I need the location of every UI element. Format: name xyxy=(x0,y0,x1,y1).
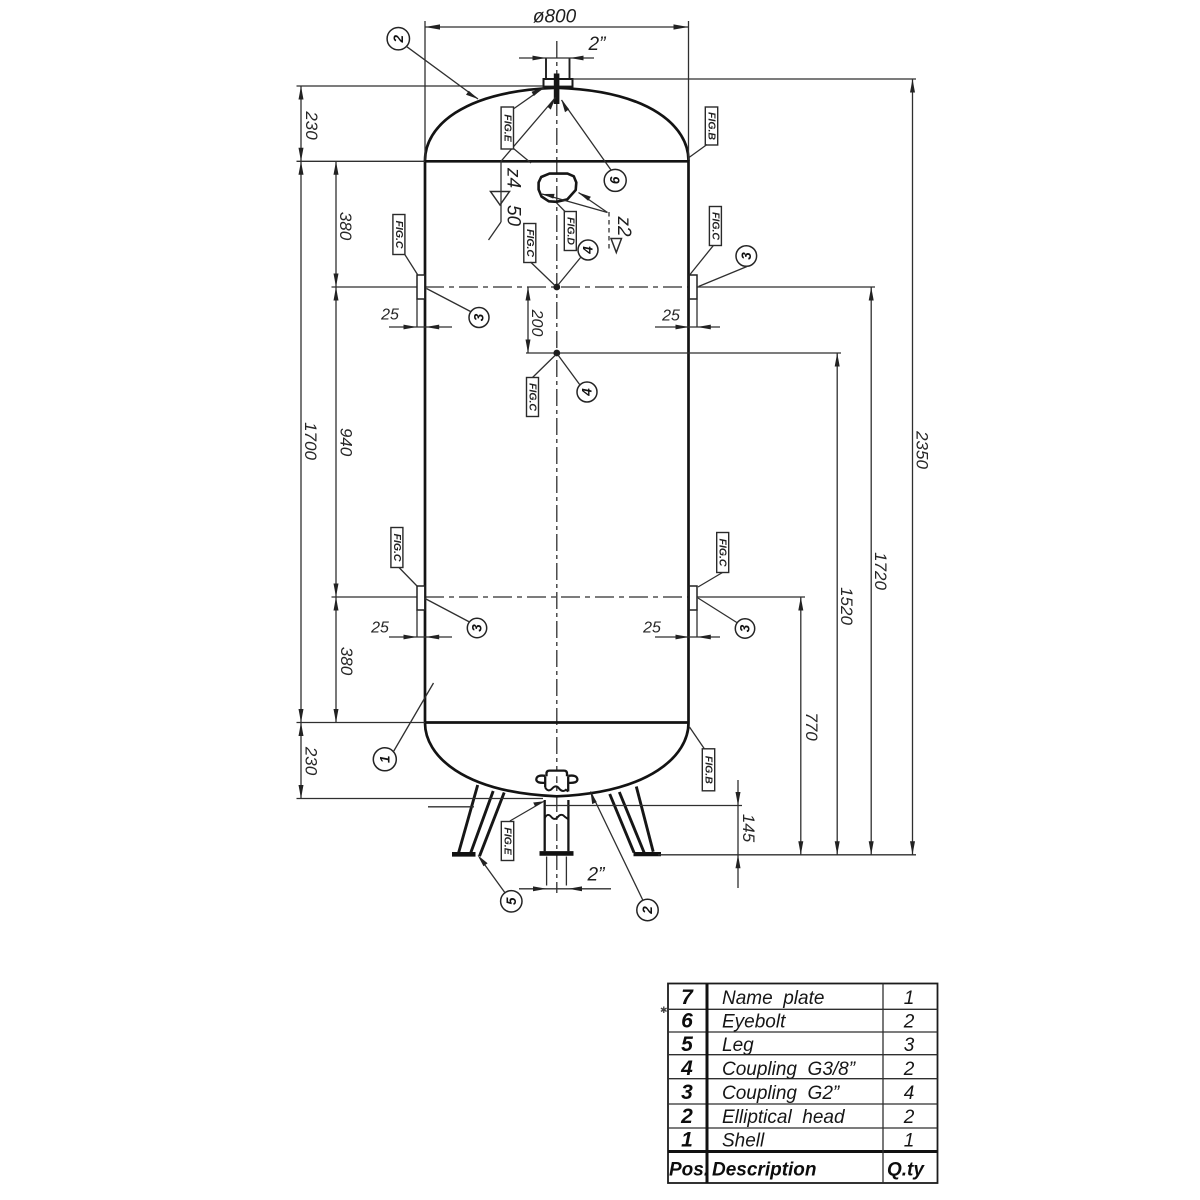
coupling G2 upper-left xyxy=(417,275,425,299)
coupling G2 lower-right xyxy=(689,586,697,610)
balloon 3 upper-left xyxy=(469,308,489,328)
weld symbol z2 xyxy=(579,193,608,213)
svg-text:5: 5 xyxy=(681,1033,693,1056)
svg-text:Pos.: Pos. xyxy=(669,1160,709,1181)
svg-text:3: 3 xyxy=(904,1035,915,1056)
left dim chain 230/1700/230 xyxy=(300,86,302,799)
dim 1520 xyxy=(836,353,838,855)
top elliptical head xyxy=(425,88,689,161)
svg-text:200: 200 xyxy=(528,309,545,337)
top nozzle pipe xyxy=(545,58,547,79)
label FIG.E top xyxy=(501,107,513,149)
svg-text:Coupling G3/8”: Coupling G3/8” xyxy=(722,1059,857,1080)
upper coupling centerline xyxy=(332,286,426,288)
balloon 1 xyxy=(373,748,396,771)
dim 770 xyxy=(800,597,802,855)
svg-text:940: 940 xyxy=(337,428,356,457)
svg-text:FIG.E: FIG.E xyxy=(501,114,513,142)
ext lines below bottom flange xyxy=(546,857,548,886)
dim 2 inch bottom xyxy=(519,888,611,890)
svg-text:4: 4 xyxy=(680,1057,693,1080)
svg-text:50: 50 xyxy=(503,205,524,227)
dim Ø800 xyxy=(424,21,426,160)
svg-text:1: 1 xyxy=(377,756,392,764)
coupling G2 upper-right xyxy=(689,275,697,299)
eyebolt plan view xyxy=(539,174,577,202)
svg-text:Eyebolt: Eyebolt xyxy=(722,1012,786,1033)
balloon 3 upper-right xyxy=(736,246,757,267)
coupling G3/8 node upper xyxy=(553,284,560,291)
parts table frame xyxy=(668,984,938,1184)
shell right wall xyxy=(687,160,690,723)
weld symbol z4-50 flag xyxy=(500,161,502,222)
svg-text:3: 3 xyxy=(470,624,485,632)
label FIG.C upper-left xyxy=(393,215,405,255)
dim 2 inch top xyxy=(519,57,594,59)
bottom coupling break squiggle xyxy=(545,786,568,791)
left leg xyxy=(458,785,477,854)
svg-text:2: 2 xyxy=(640,906,655,915)
balloon 2 top xyxy=(387,28,409,50)
svg-text:Q.ty: Q.ty xyxy=(887,1160,925,1181)
balloon 6 xyxy=(604,169,626,191)
svg-text:25: 25 xyxy=(661,308,680,325)
svg-text:380: 380 xyxy=(336,212,355,241)
svg-text:1: 1 xyxy=(904,1131,915,1152)
svg-text:6: 6 xyxy=(681,1010,693,1033)
top tangent weld line xyxy=(425,160,689,163)
svg-text:Name plate: Name plate xyxy=(722,988,824,1009)
svg-text:770: 770 xyxy=(802,712,821,741)
svg-text:z4: z4 xyxy=(503,167,524,188)
svg-text:3: 3 xyxy=(739,252,754,260)
coupling G3/8 node lower xyxy=(553,350,560,357)
svg-text:FIG.C: FIG.C xyxy=(391,534,403,562)
label FIG.C lower-left xyxy=(391,528,403,568)
svg-text:Coupling G2”: Coupling G2” xyxy=(722,1083,841,1104)
top nozzle stud (dark) xyxy=(554,74,560,105)
svg-text:1700: 1700 xyxy=(301,422,320,460)
svg-text:FIG.B: FIG.B xyxy=(703,756,715,784)
svg-text:380: 380 xyxy=(337,647,356,676)
balloon 2 bottom xyxy=(637,899,658,920)
svg-text:2: 2 xyxy=(680,1105,693,1128)
left leg foot xyxy=(452,852,476,857)
label FIG.D xyxy=(564,212,576,251)
svg-text:4: 4 xyxy=(580,388,595,397)
label FIG.B bottom xyxy=(702,749,714,791)
label FIG.C lower-mid xyxy=(527,378,539,417)
svg-text:3: 3 xyxy=(472,313,487,321)
right extension lines xyxy=(573,78,917,80)
shell left wall xyxy=(424,160,427,723)
svg-text:Description: Description xyxy=(712,1160,817,1181)
svg-text:Elliptical head: Elliptical head xyxy=(722,1107,846,1128)
bottom pipe xyxy=(544,800,546,851)
svg-text:230: 230 xyxy=(302,110,321,140)
left chain extension lines xyxy=(297,85,544,87)
svg-text:Leg: Leg xyxy=(722,1035,754,1056)
balloon 4 upper xyxy=(578,240,598,260)
svg-text:230: 230 xyxy=(302,746,321,776)
label FIG.E bottom xyxy=(501,822,513,861)
svg-text:1720: 1720 xyxy=(871,552,890,590)
right leg foot xyxy=(634,852,662,856)
svg-text:5: 5 xyxy=(504,897,519,905)
dim 2350 xyxy=(912,79,914,855)
label FIG.C lower-right xyxy=(717,533,729,573)
coupling G2 lower-left xyxy=(417,586,425,610)
svg-text:2”: 2” xyxy=(588,34,608,55)
bottom coupling body xyxy=(544,776,546,787)
svg-text:Shell: Shell xyxy=(722,1131,765,1152)
top nozzle flange xyxy=(544,79,573,87)
bottom coupling right lobe xyxy=(568,776,577,783)
svg-text:FIG.B: FIG.B xyxy=(706,112,718,140)
svg-text:FIG.C: FIG.C xyxy=(709,212,721,240)
bottom flange xyxy=(540,851,574,856)
svg-text:FIG.C: FIG.C xyxy=(524,229,536,257)
svg-text:FIG.E: FIG.E xyxy=(502,827,514,855)
svg-text:✱: ✱ xyxy=(660,1005,668,1015)
dim 145 xyxy=(737,780,739,888)
label FIG.B top xyxy=(705,107,717,145)
svg-text:z2: z2 xyxy=(613,215,634,237)
svg-text:3: 3 xyxy=(681,1081,693,1104)
bottom coupling left lobe xyxy=(536,776,545,783)
balloon 5 xyxy=(501,891,522,912)
vessel centerline xyxy=(556,41,558,893)
right leg xyxy=(610,794,634,853)
svg-text:2: 2 xyxy=(903,1012,915,1033)
svg-text:4: 4 xyxy=(581,246,596,255)
svg-text:3: 3 xyxy=(738,624,753,632)
svg-text:FIG.C: FIG.C xyxy=(717,539,729,567)
svg-text:1: 1 xyxy=(904,988,915,1009)
balloon 3 lower-right xyxy=(735,619,754,638)
svg-text:7: 7 xyxy=(681,986,694,1009)
svg-text:1: 1 xyxy=(681,1129,693,1152)
svg-text:25: 25 xyxy=(642,620,661,637)
svg-text:ø800: ø800 xyxy=(533,7,577,28)
balloon 4 lower xyxy=(577,382,597,402)
svg-text:145: 145 xyxy=(739,814,758,843)
dim 1720 xyxy=(870,287,872,855)
svg-text:2: 2 xyxy=(903,1107,915,1128)
svg-text:FIG.C: FIG.C xyxy=(393,221,405,249)
svg-text:25: 25 xyxy=(370,620,389,637)
svg-text:2350: 2350 xyxy=(913,430,932,469)
svg-text:2”: 2” xyxy=(587,865,607,886)
left dim chain 380/940/380 xyxy=(335,161,337,722)
svg-text:25: 25 xyxy=(380,307,399,324)
bottom pipe break xyxy=(545,815,569,819)
bottom tangent weld line xyxy=(425,721,689,724)
balloon 3 lower-left xyxy=(467,618,486,637)
svg-text:2: 2 xyxy=(903,1059,915,1080)
label FIG.C center-top xyxy=(524,224,536,263)
bottom elliptical head xyxy=(425,723,689,796)
svg-text:FIG.C: FIG.C xyxy=(527,383,539,411)
lower coupling centerline xyxy=(332,596,426,598)
svg-text:4: 4 xyxy=(904,1083,915,1104)
bottom coupling cap xyxy=(547,771,568,777)
dim 200 xyxy=(527,287,529,353)
svg-text:FIG.D: FIG.D xyxy=(564,217,576,245)
label FIG.C upper-right xyxy=(709,207,721,246)
svg-text:1520: 1520 xyxy=(837,587,856,625)
svg-text:2: 2 xyxy=(391,34,406,43)
svg-text:6: 6 xyxy=(608,176,623,184)
